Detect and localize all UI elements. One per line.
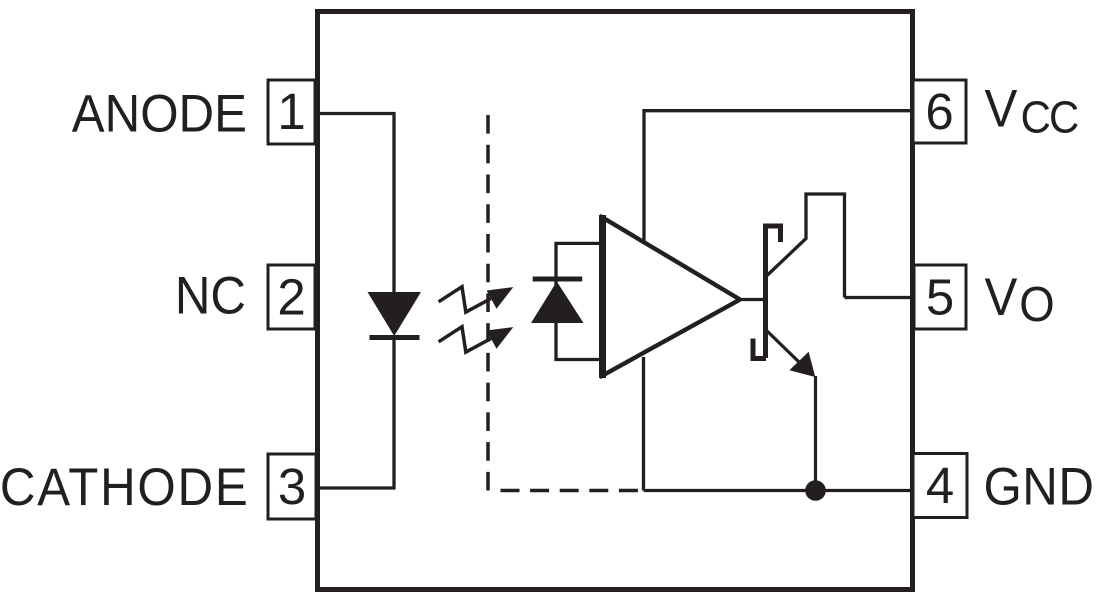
svg-text:2: 2 (277, 269, 305, 326)
transistor Q1 emitter (766, 330, 800, 363)
svg-text:1: 1 (277, 83, 305, 140)
svg-text:GND: GND (984, 457, 1095, 516)
svg-text:NC: NC (175, 266, 246, 325)
pin 4 box (913, 454, 967, 518)
wire amplifier ground (642, 357, 645, 491)
amplifier A1 (603, 215, 741, 378)
junction dot (805, 480, 826, 501)
photodiode D2 (531, 243, 600, 359)
svg-text:VO: VO (985, 267, 1055, 332)
wire emitter to ground (814, 376, 817, 491)
optical barrier dashed line (488, 115, 643, 491)
svg-text:CATHODE: CATHODE (0, 457, 249, 516)
pin 5 box (914, 265, 966, 329)
wire pin 1 to LED anode (316, 114, 394, 293)
svg-text:4: 4 (926, 457, 954, 514)
pin 1 box (268, 80, 315, 144)
svg-text:3: 3 (278, 458, 306, 515)
pin 2 box (268, 265, 315, 329)
pin 6 box (913, 80, 966, 143)
wire amplifier output to transistor base (742, 298, 764, 301)
transistor Q1 emitter arrowhead (789, 352, 815, 377)
transistor Q1 base hook bottom (753, 339, 766, 359)
svg-text:6: 6 (925, 83, 953, 140)
IC package outline (318, 12, 913, 590)
light ray arrow top (439, 287, 514, 312)
light ray arrow bottom (439, 327, 514, 352)
svg-text:VCC: VCC (985, 79, 1078, 143)
wire VCC pin 6 to amplifier (644, 111, 913, 242)
wire collector to pin 5 (845, 296, 914, 299)
transistor Q1 base hook top (765, 226, 781, 242)
svg-text:5: 5 (926, 269, 954, 326)
wire LED cathode to pin 3 (316, 339, 394, 488)
pin 3 box (268, 454, 316, 519)
LED D1 emitter diode (368, 292, 422, 340)
svg-text:ANODE: ANODE (72, 84, 247, 143)
transistor Q1 base bar (763, 224, 768, 359)
transistor Q1 collector path (767, 194, 845, 298)
ground wire to pin 4 (644, 489, 914, 492)
